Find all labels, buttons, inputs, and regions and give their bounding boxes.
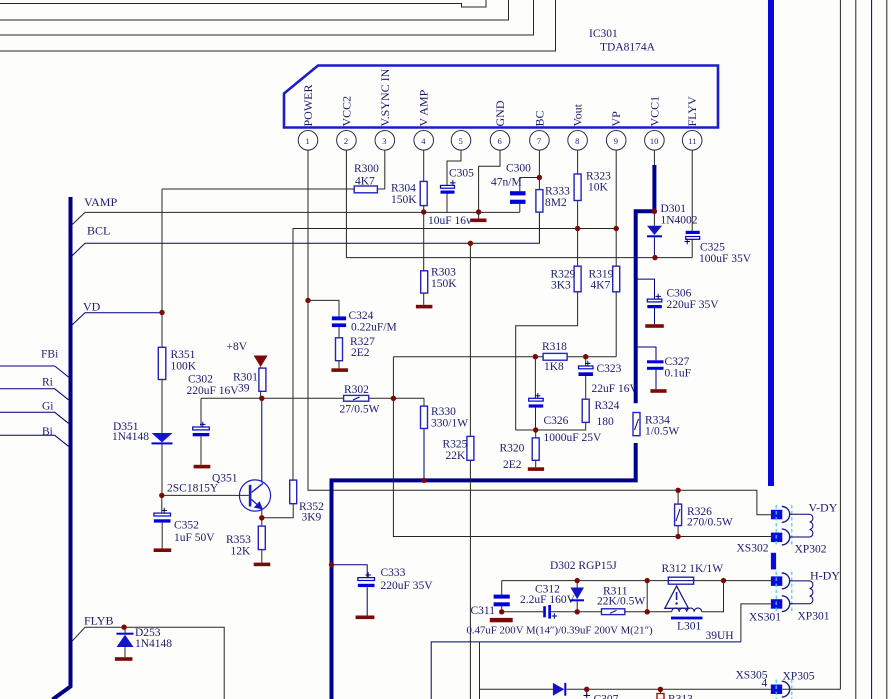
wire pin9 VP vertical through R319 down to R318 rail [615,150,617,357]
junction dot R302 right node [391,396,396,401]
wire pin11 FLYV to C325 [691,150,693,258]
wire D301 cathode to VCC2 net [653,237,655,257]
ground below R320 [528,467,544,471]
wire FLYB net from bus to bottom edge [72,627,225,699]
svg-text:C327: C327 [665,356,690,368]
pin 4 [414,131,434,151]
pin 10 [645,131,665,151]
svg-text:12K: 12K [231,546,252,558]
svg-text:5: 5 [459,136,463,146]
svg-text:C326: C326 [544,415,569,427]
junction dot R326 bottom [675,534,680,539]
power bus left thick navy bus bar [53,197,71,699]
wire R301 +8V branch [260,367,262,398]
coil XP301 [790,581,813,604]
svg-text:22K: 22K [446,450,467,462]
svg-text:6: 6 [498,136,502,146]
junction dot C333 on thick net [329,562,334,567]
connector XS301 pin 1 [771,573,790,589]
transistor Q351 2SC1815Y [167,473,271,512]
wire Vout-VP upper net (y=228.5) [293,229,616,481]
pin 6 [490,131,510,151]
junction dot emitter node [259,515,264,520]
wire Ri net [0,389,69,400]
wire Q351 emitter to R353 and R352 [262,504,293,563]
svg-text:H-DY: H-DY [810,569,840,583]
svg-text:2E2: 2E2 [503,459,522,471]
resistor R351 [158,347,196,379]
svg-text:2: 2 [344,136,348,146]
svg-text:D302 RGP15J: D302 RGP15J [550,560,617,572]
svg-text:R312 1K/1W: R312 1K/1W [662,563,724,575]
svg-text:1/0.5W: 1/0.5W [645,426,679,438]
junction dot pin1/C324 [305,298,310,303]
junction dot pin9 on y228 net [614,226,619,231]
svg-text:1000uF 25V: 1000uF 25V [544,432,603,444]
wire right vertical line 2 [855,0,857,699]
capacitor C326 [529,393,602,444]
ground below D253 [115,657,132,661]
wire C333 stub from thick net [332,565,368,616]
svg-text:POWER: POWER [301,85,315,127]
wire C327 stub from thick net [637,347,657,389]
wire pin10 VCC1 thin stub [653,150,655,166]
wire VD net from bus [72,313,163,326]
ground below C333 [356,616,375,620]
svg-text:FLYV: FLYV [685,96,699,126]
capacitor C306 [647,288,719,312]
svg-text:VD: VD [83,300,101,314]
svg-text:3K3: 3K3 [551,280,571,292]
resistor R312 [662,563,724,584]
wire pin7 BC vertical through R333 [538,150,540,212]
svg-text:BCL: BCL [87,224,110,238]
svg-text:39: 39 [238,383,250,395]
junction dot D302 bottom [575,609,580,614]
op-amp IC301 TDA8174A outline [284,28,718,128]
junction dot R312 left [645,578,650,583]
wire C323 branch to R324 to y430 rail [516,357,586,430]
wire pin1 POWER net down and across to XS302 [308,150,771,515]
wire D302 top rail (y=580.6) [502,580,771,582]
ground below R303 [416,305,433,309]
junction dot thick net at pin10 [652,209,657,214]
resistor R333 [536,186,570,213]
svg-text:R303: R303 [431,267,456,279]
svg-text:3K9: 3K9 [302,512,322,524]
wire XS301 lower pin loop [741,604,771,642]
svg-text:220uF 35V: 220uF 35V [667,299,720,311]
wire C306 stub from thick net [637,279,655,324]
wire D301 branch [653,211,655,226]
svg-text:2.2uF 160V: 2.2uF 160V [520,594,576,606]
diode bottom rail (partial) [553,683,566,696]
wire R318-left vertical down through R302 junction to XS302 lower rail [393,357,771,537]
ground at VAMP/GND junction [470,219,486,223]
wire pin8 Vout vertical through R323 and R329 [516,150,578,430]
capacitor C305 [441,168,475,194]
wire C326 branch [534,357,536,430]
connector mating dashed lines XS305 [776,680,792,699]
pin 5 [451,131,471,151]
coil XP302 [790,514,813,537]
svg-text:XP302: XP302 [795,544,827,556]
svg-text:4K7: 4K7 [591,280,611,292]
svg-text:R324: R324 [595,400,620,412]
pin 8 [568,131,588,151]
svg-text:XP305: XP305 [783,671,815,683]
resistor R325 [443,436,474,462]
capacitor C307 stub (cut off at bottom) [584,689,619,699]
junction dot D351/base node [159,493,164,498]
pin 9 [606,131,626,151]
resistor R326 [675,504,733,528]
svg-text:R353: R353 [226,534,251,546]
junction dot R312 right [721,578,726,583]
svg-text:1: 1 [306,136,310,146]
power bus right thick blue bar [768,0,774,486]
capacitor C302 [187,374,240,437]
pin 1 [298,131,318,151]
wire C300 top connection to pin7 [520,178,540,213]
svg-text:VCC1: VCC1 [647,96,661,127]
svg-text:100K: 100K [171,361,197,373]
capacitor C327 [647,356,691,380]
svg-text:FLYB: FLYB [84,614,113,628]
resistor R311 [597,586,645,615]
svg-text:0.22uF/M: 0.22uF/M [351,322,397,334]
svg-text:180: 180 [597,416,615,428]
wire right vertical line 3 [871,0,873,699]
resistor stub at bottom (cut off) [657,689,693,699]
ground below R353 [254,563,271,567]
wire top-left corner bus line 3 [0,0,534,35]
junction dot pin4/VAMP [421,209,426,214]
wire pin5 to C305 [447,150,461,212]
junction dot bottom resistor node [658,687,663,692]
wire vertical x=162 R300-left to VD to R351 to D351 [161,189,163,495]
wire D302 bottom rail (y=611.8) [502,611,648,613]
svg-text:V.SYNC IN: V.SYNC IN [378,68,392,126]
svg-text:4: 4 [762,678,768,690]
wire Bi net [0,435,69,446]
connector XS305 [771,681,790,697]
svg-text:IC301: IC301 [589,28,618,40]
pin 2 [337,131,357,151]
ground below C302 [194,465,211,469]
wire XS305 bottom rail (y=689.3) [480,688,841,690]
svg-text:XS302: XS302 [737,543,769,555]
svg-text:C324: C324 [349,310,374,322]
ground below C352 [154,548,172,552]
junction dot C326/R320 node [533,427,538,432]
junction dot C311 bottom [499,609,504,614]
resistor R304 [391,181,427,206]
svg-text:3: 3 [382,136,386,146]
svg-text:1N4148: 1N4148 [135,638,172,650]
svg-text:GND: GND [493,100,507,126]
wire pin3 to R300 [384,150,386,189]
svg-text:R333: R333 [545,186,570,198]
svg-text:V-DY: V-DY [809,501,838,515]
wire R325 vertical from navy net down to bottom edge [469,243,471,699]
svg-text:VCC2: VCC2 [339,96,353,127]
wire C352 connections [161,495,163,548]
svg-text:C323: C323 [597,363,622,375]
capacitor C312 [520,584,576,619]
svg-text:47n/M: 47n/M [491,177,522,189]
resistor R329 [551,266,582,292]
wire L301 left connection [647,611,672,613]
pin 7 [530,131,550,151]
wire R312 left vertical [646,581,648,612]
svg-text:C311: C311 [471,605,496,617]
resistor R330 [421,406,469,430]
junction dot VD node [159,310,164,315]
junction dot D302 top [575,578,580,583]
svg-text:10uF 16v: 10uF 16v [428,215,472,227]
svg-text:R320: R320 [500,443,525,455]
svg-text:VP: VP [609,111,623,127]
svg-text:+8V: +8V [227,341,248,353]
capacitor C333 [358,567,433,592]
wire pin6 GND to ground junction [479,150,500,218]
resistor R334 [633,413,679,438]
svg-text:R325: R325 [443,439,468,451]
svg-text:7: 7 [537,136,541,146]
wire FBi net [0,366,69,377]
wire D253 connections [124,627,126,657]
connector mating dashed lines XS301 [776,572,792,613]
svg-text:10K: 10K [588,182,609,194]
junction dot C307 node [584,687,589,692]
junction dot L301 left [645,609,650,614]
resistor R319 [589,266,620,292]
resistor R300 [354,163,379,193]
wire R326 stubs [677,490,679,536]
ground below R327 [331,368,348,372]
connector mating dashed lines XS302 [776,505,792,546]
svg-text:4K7: 4K7 [355,176,375,188]
junction dot D301 cathode on VCC2 net [652,255,657,260]
svg-text:C333: C333 [381,567,406,579]
wire Q351 collector navy [261,398,263,482]
svg-text:Vout: Vout [571,103,585,126]
svg-text:TDA8174A: TDA8174A [600,42,656,54]
svg-text:R330: R330 [431,406,456,418]
ground below C306 [645,324,664,328]
svg-text:150K: 150K [391,194,417,206]
svg-text:C300: C300 [506,163,531,175]
svg-text:R304: R304 [391,183,416,195]
ground below C327 [650,389,666,393]
svg-text:8: 8 [575,136,579,146]
junction dot R325 on navy net [468,241,473,246]
svg-text:V AMP: V AMP [417,89,431,126]
junction dot R318 left node [533,354,538,359]
svg-text:XP301: XP301 [798,611,830,623]
connector XS301 pin 2 [771,596,790,612]
resistor R352 [290,480,324,523]
capacitor C325 [685,231,752,265]
svg-text:27/0.5W: 27/0.5W [340,404,380,416]
connector XS302 pin 2 [771,529,790,545]
wire Gi net [0,412,69,423]
connector XS302 pin 1 [771,507,790,523]
capacitor C311 [471,595,510,617]
svg-text:0.47uF 200V M(14″)/0.39uF 200V: 0.47uF 200V M(14″)/0.39uF 200V M(21″) [467,625,654,637]
capacitor C352 [154,508,215,544]
pin 11 [682,131,702,151]
svg-text:R302: R302 [344,384,369,396]
junction dot R326 top [675,488,680,493]
junction dot D253 node [121,625,126,630]
diode D301 1N4002 [647,203,698,237]
svg-text:C305: C305 [449,168,474,180]
inductor L301 39UH with core [671,608,734,642]
power symbol +8V [227,341,268,367]
wire top-left corner bus line 2 [0,0,509,20]
power stub blue bar between connectors [771,553,776,570]
svg-text:L301: L301 [677,621,702,633]
resistor R327 [336,336,376,361]
svg-text:C352: C352 [174,520,199,532]
svg-text:R313: R313 [668,694,693,699]
ground bar below C311 [490,618,513,622]
svg-text:D301: D301 [661,203,687,215]
svg-text:1N4148: 1N4148 [112,431,149,443]
wire bottom box rail (y=641.9) [431,642,741,699]
wire R302 rail (y=398.3) [201,397,424,399]
wire D302 vertical [576,581,578,612]
svg-text:10: 10 [650,136,659,146]
wire thick VCC1 net (pin10 down, across, down left side to bottom) [332,165,657,699]
wire bottom drop to XS305 rail [479,642,481,699]
resistor R323 [574,171,611,201]
wire R320 branch to ground [535,430,537,467]
wire L301 right connection up to R312 right [702,581,724,612]
wire R330 branch down to thick net [423,398,425,406]
svg-text:11: 11 [688,136,696,146]
junction dot pin8 on y228 net [575,226,580,231]
svg-text:C325: C325 [700,242,725,254]
resistor R353 [226,526,265,557]
svg-text:22uF 16V: 22uF 16V [592,383,639,395]
svg-text:0.1uF: 0.1uF [665,368,692,380]
junction dot R330 on thick net [421,478,426,483]
resistor R320 [500,438,540,471]
resistor R318 [542,341,567,373]
svg-text:C302: C302 [188,374,213,386]
svg-text:8M2: 8M2 [545,197,567,209]
resistor R303 [421,267,458,294]
resistor R324 [582,399,619,428]
svg-text:2SC1815Y: 2SC1815Y [167,483,219,495]
wire VAMP net from bus to pin4 and GND junction [72,212,520,225]
svg-text:22K/0.5W: 22K/0.5W [597,596,645,608]
capacitor C324 [332,310,397,334]
svg-text:220uF 16V: 220uF 16V [187,385,240,397]
wire right vertical line 4 [886,0,888,699]
junction dot R301 node [259,396,264,401]
pin 3 [375,131,395,151]
wire C324 jog from pin1 [308,300,339,368]
svg-text:R300: R300 [354,163,379,175]
wire pin2 VCC2 net down and across to pin11 [346,150,692,258]
capacitor C323 [579,361,639,395]
wire C311 branch [501,581,503,612]
wire R318 rail (y=356.7) [393,356,616,358]
svg-text:270/0.5W: 270/0.5W [687,517,733,529]
wire R300 horizontal rail (y=189) [162,188,385,190]
warning triangle symbol above L301 [665,586,689,608]
capacitor C300 [491,163,531,204]
svg-text:39UH: 39UH [706,630,734,642]
svg-text:BC: BC [532,110,546,126]
svg-text:C306: C306 [667,288,692,300]
svg-text:2E2: 2E2 [351,347,370,359]
svg-text:9: 9 [614,136,618,146]
svg-text:XS301: XS301 [749,612,781,624]
svg-text:1K8: 1K8 [544,361,564,373]
svg-text:100uF 35V: 100uF 35V [699,253,752,265]
junction dot R318 right node [583,354,588,359]
svg-text:Bi: Bi [42,426,53,438]
wire C302 branch [200,398,202,465]
svg-text:1uF 50V: 1uF 50V [174,532,215,544]
wire BCL navy net from bus to R333 bottom [72,212,540,256]
svg-text:R318: R318 [542,341,567,353]
resistor R302 [340,384,380,416]
wire top-left corner bus line 4 [0,0,556,51]
wire Q351 base [162,494,249,496]
svg-text:Gi: Gi [42,401,54,413]
resistor R301 [233,368,266,394]
wire pin4 V AMP vertical through R304 and R303 [423,150,425,305]
wire R330 bottom to thick net [423,429,425,481]
diode D351 1N4148 [112,421,173,444]
wire right vertical line 1 [839,0,841,689]
junction dot C300/pin7 [537,175,542,180]
junction dot GND/VAMP [476,209,481,214]
wire top-left corner bus line 1 [0,0,486,7]
diode D253 1N4148 [117,627,173,650]
svg-text:C307: C307 [594,694,619,699]
diode D302 RGP15J [550,560,617,601]
svg-text:FBi: FBi [41,349,58,361]
svg-text:150K: 150K [431,278,457,290]
svg-text:Ri: Ri [42,377,53,389]
svg-text:220uF 35V: 220uF 35V [381,580,434,592]
svg-text:1N4002: 1N4002 [661,215,698,227]
svg-text:R351: R351 [171,349,196,361]
svg-text:VAMP: VAMP [84,195,117,209]
svg-text:4: 4 [421,136,426,146]
svg-text:330/1W: 330/1W [431,418,468,430]
